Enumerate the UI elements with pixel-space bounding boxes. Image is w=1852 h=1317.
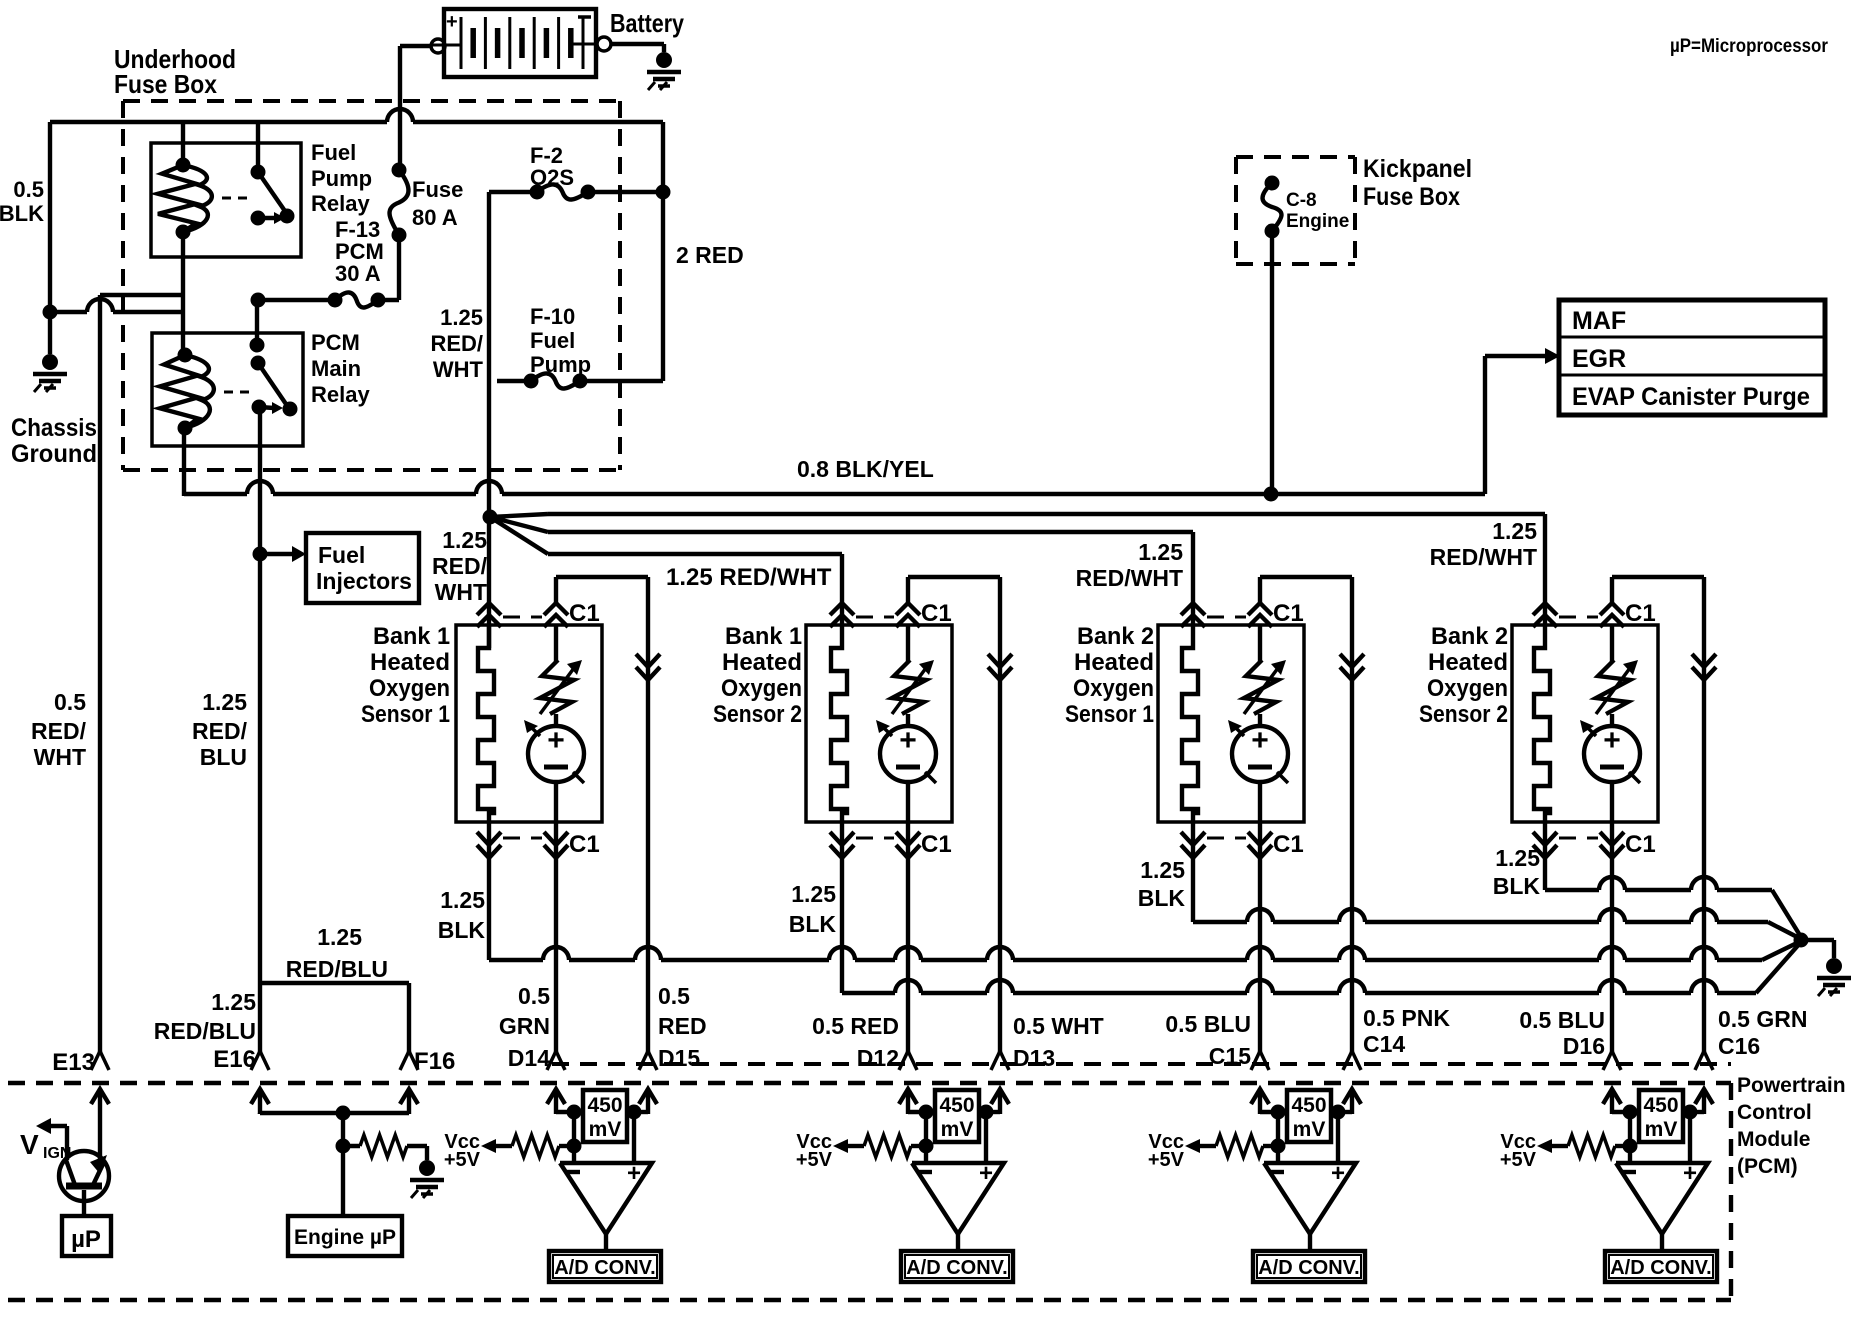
svg-text:EVAP Canister Purge: EVAP Canister Purge [1572, 383, 1810, 411]
svg-text:RED/: RED/ [31, 718, 87, 744]
svg-text:E16: E16 [213, 1046, 256, 1073]
svg-text:+5V: +5V [1500, 1149, 1537, 1171]
svg-text:(PCM): (PCM) [1737, 1155, 1798, 1178]
svg-text:GRN: GRN [499, 1013, 550, 1039]
svg-text:0.5 BLU: 0.5 BLU [1165, 1011, 1251, 1037]
svg-text:+5V: +5V [444, 1149, 481, 1171]
svg-text:BLK: BLK [1138, 885, 1186, 911]
svg-text:1.25: 1.25 [442, 527, 487, 553]
svg-text:Fuel: Fuel [311, 140, 356, 165]
svg-text:Main: Main [311, 356, 361, 381]
svg-text:RED/: RED/ [430, 331, 483, 356]
svg-text:Fuse: Fuse [412, 177, 463, 202]
svg-text:+: + [1603, 724, 1621, 757]
svg-text:Engine: Engine [1286, 211, 1349, 232]
svg-text:Pump: Pump [530, 352, 591, 377]
svg-text:1.25: 1.25 [202, 689, 247, 715]
svg-text:WHT: WHT [34, 744, 86, 770]
svg-text:C1: C1 [921, 831, 952, 858]
svg-text:Sensor 1: Sensor 1 [1065, 701, 1154, 728]
svg-text:1.25: 1.25 [1495, 845, 1540, 871]
svg-text:RED: RED [658, 1013, 707, 1039]
svg-text:Sensor 1: Sensor 1 [361, 701, 450, 728]
svg-text:RED/BLU: RED/BLU [286, 956, 388, 982]
svg-text:Relay: Relay [311, 191, 370, 216]
svg-text:C14: C14 [1363, 1031, 1405, 1057]
svg-text:C1: C1 [921, 600, 952, 627]
svg-text:D16: D16 [1563, 1033, 1605, 1059]
svg-text:Fuse Box: Fuse Box [1363, 183, 1460, 211]
svg-text:A/D CONV.: A/D CONV. [906, 1257, 1008, 1279]
svg-text:1.25: 1.25 [1492, 518, 1537, 544]
svg-text:+: + [446, 11, 458, 33]
svg-text:Engine µP: Engine µP [294, 1226, 396, 1249]
svg-text:+5V: +5V [796, 1149, 833, 1171]
svg-text:E13: E13 [52, 1049, 95, 1076]
svg-text:C1: C1 [569, 831, 600, 858]
svg-text:0.5 BLU: 0.5 BLU [1519, 1007, 1605, 1033]
svg-text:1.25: 1.25 [440, 305, 483, 330]
svg-text:Pump: Pump [311, 166, 372, 191]
svg-text:RED/: RED/ [432, 553, 488, 579]
svg-text:Injectors: Injectors [316, 568, 412, 594]
svg-text:Kickpanel: Kickpanel [1363, 155, 1472, 183]
svg-text:Ground: Ground [11, 440, 97, 468]
svg-text:0.5: 0.5 [658, 983, 690, 1009]
svg-text:C15: C15 [1209, 1043, 1251, 1069]
svg-text:+5V: +5V [1148, 1149, 1185, 1171]
svg-text:D14: D14 [508, 1045, 550, 1071]
svg-text:0.8 BLK/YEL: 0.8 BLK/YEL [797, 456, 934, 482]
svg-text:+: + [1683, 1160, 1697, 1187]
svg-text:mV: mV [1645, 1118, 1678, 1141]
svg-text:Heated: Heated [1428, 649, 1508, 676]
svg-text:0.5 WHT: 0.5 WHT [1013, 1013, 1104, 1039]
svg-text:0.5: 0.5 [13, 177, 44, 202]
svg-text:C1: C1 [1625, 831, 1656, 858]
svg-text:1.25: 1.25 [317, 924, 362, 950]
svg-text:Bank 2: Bank 2 [1431, 623, 1508, 650]
svg-text:Fuel: Fuel [318, 542, 365, 568]
svg-text:F-10: F-10 [530, 304, 575, 329]
svg-text:BLK: BLK [438, 917, 486, 943]
svg-text:Fuel: Fuel [530, 328, 575, 353]
svg-text:1.25: 1.25 [440, 887, 485, 913]
svg-text:BLK: BLK [0, 201, 44, 226]
svg-text:+: + [547, 724, 565, 757]
svg-text:450: 450 [1291, 1094, 1326, 1117]
svg-text:+: + [979, 1160, 993, 1187]
svg-text:WHT: WHT [435, 579, 487, 605]
svg-text:Battery: Battery [610, 8, 684, 38]
svg-text:C-8: C-8 [1286, 190, 1317, 211]
svg-text:µP=Microprocessor: µP=Microprocessor [1670, 36, 1829, 57]
svg-text:30 A: 30 A [335, 261, 381, 286]
svg-text:O2S: O2S [530, 165, 574, 190]
svg-text:0.5: 0.5 [54, 689, 86, 715]
svg-text:Module: Module [1737, 1128, 1811, 1151]
svg-text:Oxygen: Oxygen [721, 675, 802, 702]
svg-text:1.25: 1.25 [791, 881, 836, 907]
svg-text:RED/: RED/ [192, 718, 248, 744]
svg-text:Bank 2: Bank 2 [1077, 623, 1154, 650]
svg-text:1.25: 1.25 [211, 989, 256, 1015]
svg-text:80 A: 80 A [412, 205, 458, 230]
svg-text:0.5 GRN: 0.5 GRN [1718, 1006, 1807, 1032]
svg-text:Sensor 2: Sensor 2 [1419, 701, 1508, 728]
svg-text:A/D CONV.: A/D CONV. [1258, 1257, 1360, 1279]
svg-text:D12: D12 [857, 1045, 899, 1071]
svg-text:µP: µP [71, 1226, 101, 1253]
svg-text:Relay: Relay [311, 382, 370, 407]
svg-text:1.25 RED/WHT: 1.25 RED/WHT [666, 564, 832, 591]
svg-text:mV: mV [941, 1118, 974, 1141]
svg-text:+: + [1251, 724, 1269, 757]
svg-text:2 RED: 2 RED [676, 242, 744, 268]
svg-text:Heated: Heated [722, 649, 802, 676]
svg-text:BLU: BLU [200, 744, 247, 770]
svg-text:D15: D15 [658, 1045, 700, 1071]
svg-text:450: 450 [587, 1094, 622, 1117]
svg-text:+: + [899, 724, 917, 757]
svg-text:C16: C16 [1718, 1033, 1760, 1059]
svg-text:1.25: 1.25 [1138, 539, 1183, 565]
svg-text:mV: mV [1293, 1118, 1326, 1141]
svg-text:Oxygen: Oxygen [1073, 675, 1154, 702]
svg-text:Oxygen: Oxygen [369, 675, 450, 702]
svg-text:Fuse Box: Fuse Box [114, 69, 217, 99]
svg-text:450: 450 [939, 1094, 974, 1117]
svg-text:IGN: IGN [43, 1145, 71, 1162]
svg-text:C1: C1 [1273, 600, 1304, 627]
svg-text:Chassis: Chassis [11, 414, 97, 442]
svg-text:Heated: Heated [370, 649, 450, 676]
svg-text:RED/WHT: RED/WHT [1430, 544, 1537, 570]
svg-text:+: + [627, 1160, 641, 1187]
svg-text:Control: Control [1737, 1101, 1812, 1124]
svg-text:RED/WHT: RED/WHT [1076, 565, 1183, 591]
svg-text:Sensor 2: Sensor 2 [713, 701, 802, 728]
svg-text:D13: D13 [1013, 1045, 1055, 1071]
svg-text:1.25: 1.25 [1140, 857, 1185, 883]
svg-text:0.5: 0.5 [518, 983, 550, 1009]
svg-text:A/D CONV.: A/D CONV. [1610, 1257, 1712, 1279]
svg-text:C1: C1 [1625, 600, 1656, 627]
svg-text:PCM: PCM [311, 330, 360, 355]
svg-text:Bank 1: Bank 1 [373, 623, 450, 650]
svg-text:+: + [1331, 1160, 1345, 1187]
svg-text:A/D CONV.: A/D CONV. [554, 1257, 656, 1279]
svg-text:EGR: EGR [1572, 345, 1626, 373]
svg-text:450: 450 [1643, 1094, 1678, 1117]
svg-text:WHT: WHT [433, 357, 484, 382]
svg-text:RED/BLU: RED/BLU [154, 1018, 256, 1044]
svg-text:Bank 1: Bank 1 [725, 623, 802, 650]
svg-text:Heated: Heated [1074, 649, 1154, 676]
svg-text:C1: C1 [569, 600, 600, 627]
svg-text:V: V [20, 1129, 39, 1160]
svg-text:BLK: BLK [1493, 873, 1541, 899]
svg-text:C1: C1 [1273, 831, 1304, 858]
svg-text:0.5 RED: 0.5 RED [812, 1013, 899, 1039]
svg-text:mV: mV [589, 1118, 622, 1141]
svg-text:Powertrain: Powertrain [1737, 1074, 1846, 1097]
svg-text:BLK: BLK [789, 911, 837, 937]
svg-text:F16: F16 [414, 1048, 455, 1075]
svg-text:0.5 PNK: 0.5 PNK [1363, 1005, 1450, 1031]
svg-text:MAF: MAF [1572, 307, 1626, 335]
svg-text:Oxygen: Oxygen [1427, 675, 1508, 702]
